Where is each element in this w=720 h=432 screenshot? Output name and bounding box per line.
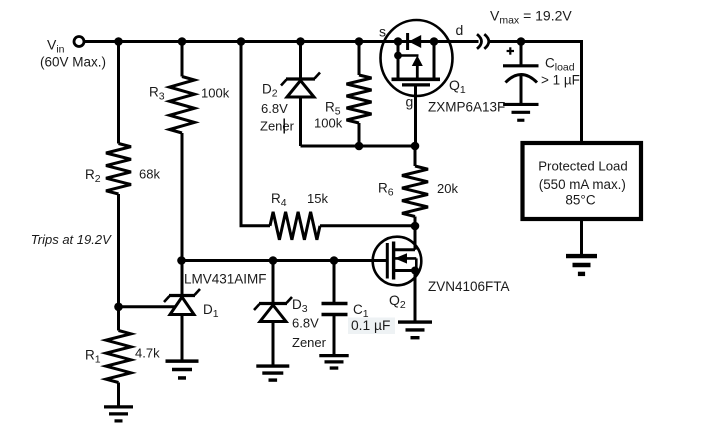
- svg-text:15k: 15k: [307, 191, 328, 206]
- svg-text:g: g: [406, 94, 414, 110]
- svg-text:LMV431AIMF: LMV431AIMF: [184, 272, 267, 287]
- svg-text:6.8V: 6.8V: [261, 101, 288, 116]
- svg-text:Protected Load: Protected Load: [538, 159, 627, 174]
- svg-text:> 1 µF: > 1 µF: [541, 73, 580, 88]
- svg-text:Zener: Zener: [260, 119, 295, 134]
- svg-text:(60V Max.): (60V Max.): [40, 55, 106, 70]
- svg-text:4.7k: 4.7k: [135, 346, 160, 361]
- svg-text:s: s: [379, 24, 386, 40]
- svg-text:100k: 100k: [201, 86, 230, 101]
- svg-text:0.1 µF: 0.1 µF: [351, 318, 390, 333]
- svg-text:ZXMP6A13F: ZXMP6A13F: [428, 100, 505, 115]
- svg-text:6.8V: 6.8V: [292, 316, 319, 331]
- svg-text:(550 mA max.): (550 mA max.): [539, 177, 626, 192]
- svg-text:100k: 100k: [314, 116, 343, 131]
- svg-text:85°C: 85°C: [565, 192, 595, 207]
- svg-text:Zener: Zener: [292, 335, 327, 350]
- svg-text:Trips at 19.2V: Trips at 19.2V: [31, 232, 112, 247]
- svg-text:68k: 68k: [139, 167, 160, 182]
- svg-text:20k: 20k: [437, 181, 458, 196]
- svg-text:d: d: [456, 22, 464, 38]
- svg-text:ZVN4106FTA: ZVN4106FTA: [428, 279, 510, 294]
